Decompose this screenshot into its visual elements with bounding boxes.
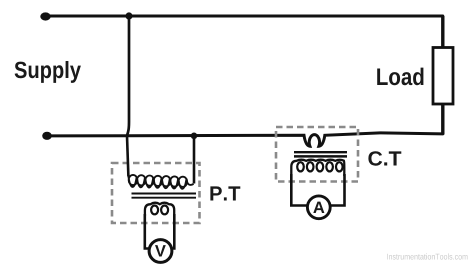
- terminal dot: supply top: [40, 12, 50, 20]
- core: P.T core lines: [132, 194, 197, 198]
- node: bottom junction for P.T right lead: [191, 133, 198, 140]
- meter: voltmeter V: [149, 240, 172, 263]
- resistor: Load: [433, 48, 453, 105]
- wire: right vertical to load top: [441, 16, 444, 48]
- inductor: P.T primary winding: [128, 177, 193, 189]
- wire: P.T primary right lead: [193, 136, 196, 184]
- terminal dot: supply bottom: [42, 132, 52, 140]
- wire: load bottom to bottom line: [441, 104, 444, 135]
- label: Supply: [15, 61, 81, 83]
- label: P.T: [210, 186, 240, 200]
- transformer P.T dashed enclosure: [112, 163, 200, 223]
- wire: top supply line: [46, 15, 443, 18]
- wire: P.T secondary right lead to voltmeter: [170, 214, 174, 249]
- label: Load: [377, 68, 423, 86]
- wire: C.T secondary left lead to ammeter: [291, 174, 307, 206]
- transformer C.T dashed enclosure: [276, 127, 358, 182]
- inductor: P.T secondary winding: [145, 203, 174, 216]
- meter: ammeter A: [307, 196, 330, 219]
- inductor: C.T secondary winding: [291, 160, 344, 176]
- wire: P.T primary left lead: [127, 136, 128, 177]
- label: C.T: [368, 151, 401, 166]
- wire: vertical from top junction to bottom line: [127, 16, 129, 136]
- watermark: [387, 253, 467, 259]
- core: C.T core lines: [294, 152, 347, 156]
- wire: P.T secondary left lead to voltmeter: [145, 214, 150, 249]
- wire: bottom supply line with C.T primary loop: [47, 133, 443, 146]
- node: top junction: [125, 12, 132, 19]
- wire: C.T secondary right lead to ammeter: [331, 174, 345, 206]
